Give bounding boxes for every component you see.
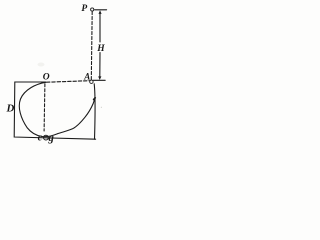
dashed line O to A xyxy=(47,81,91,83)
tick at P level xyxy=(95,9,107,11)
arrowhead up at P tick xyxy=(99,10,102,14)
wire right edge xyxy=(93,84,96,139)
svg-text:c: c xyxy=(38,132,43,143)
svg-text:g: g xyxy=(47,132,54,144)
svg-text:A: A xyxy=(83,71,90,81)
arrowhead down at A tick xyxy=(98,76,101,80)
speck xyxy=(101,107,102,108)
node junction where dome meets right edge xyxy=(94,98,96,100)
node c.g. circle xyxy=(44,135,49,140)
node P circle xyxy=(91,8,94,11)
faint scan smudge xyxy=(38,63,45,67)
dimension H line upper segment xyxy=(99,13,101,42)
dashed drop line P to A xyxy=(90,12,93,80)
rectangle tank outline (left, top-left segment, bottom, right edges) xyxy=(14,82,95,139)
node A circle xyxy=(90,80,93,83)
tick at A level xyxy=(93,79,105,81)
svg-text:O: O xyxy=(43,72,50,82)
svg-text:P: P xyxy=(81,4,87,14)
svg-text:D: D xyxy=(6,103,15,115)
svg-text:H: H xyxy=(96,44,105,54)
dimension H line lower segment xyxy=(99,53,101,78)
dashed axis below O to c.g. xyxy=(43,84,46,131)
dome curve (egg-shaped body outline) xyxy=(19,82,95,136)
